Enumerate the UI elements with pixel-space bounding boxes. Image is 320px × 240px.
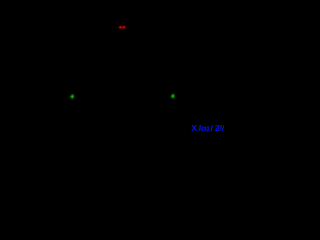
LED D1 red core right bbox=[122, 25, 127, 29]
svg-text:20V: 20V bbox=[215, 123, 225, 133]
LED D2 green glow halo bbox=[69, 93, 75, 101]
LED D1 red bridge bbox=[120, 26, 125, 29]
LED D2 green sparkle bbox=[70, 94, 74, 99]
LED D1 red core left bbox=[118, 25, 123, 29]
LED D1 red glow halo bbox=[117, 24, 128, 30]
svg-text:X: X bbox=[191, 123, 197, 133]
svg-text:/: / bbox=[211, 123, 214, 133]
LED D3 green sparkle bbox=[170, 93, 174, 98]
svg-text:Amp: Amp bbox=[199, 123, 210, 133]
LED D3 green glow halo bbox=[170, 92, 176, 100]
